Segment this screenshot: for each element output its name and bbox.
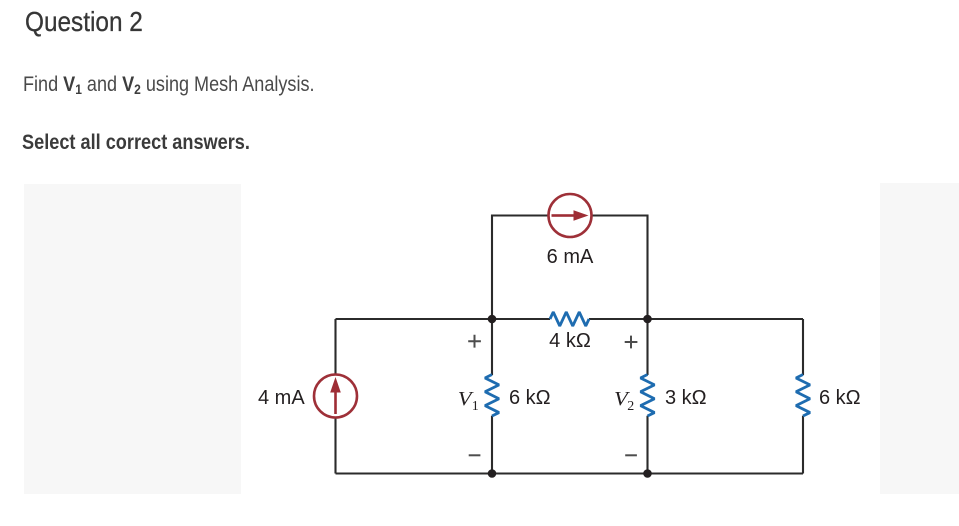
svg-text:6 kΩ: 6 kΩ — [509, 387, 551, 409]
svg-text:6 mA: 6 mA — [547, 246, 594, 268]
svg-text:6 kΩ: 6 kΩ — [819, 387, 861, 409]
svg-text:2: 2 — [627, 399, 634, 414]
svg-text:3 kΩ: 3 kΩ — [665, 387, 707, 409]
svg-text:4 mA: 4 mA — [258, 387, 305, 409]
svg-text:1: 1 — [472, 399, 479, 414]
svg-text:4 kΩ: 4 kΩ — [549, 330, 591, 352]
